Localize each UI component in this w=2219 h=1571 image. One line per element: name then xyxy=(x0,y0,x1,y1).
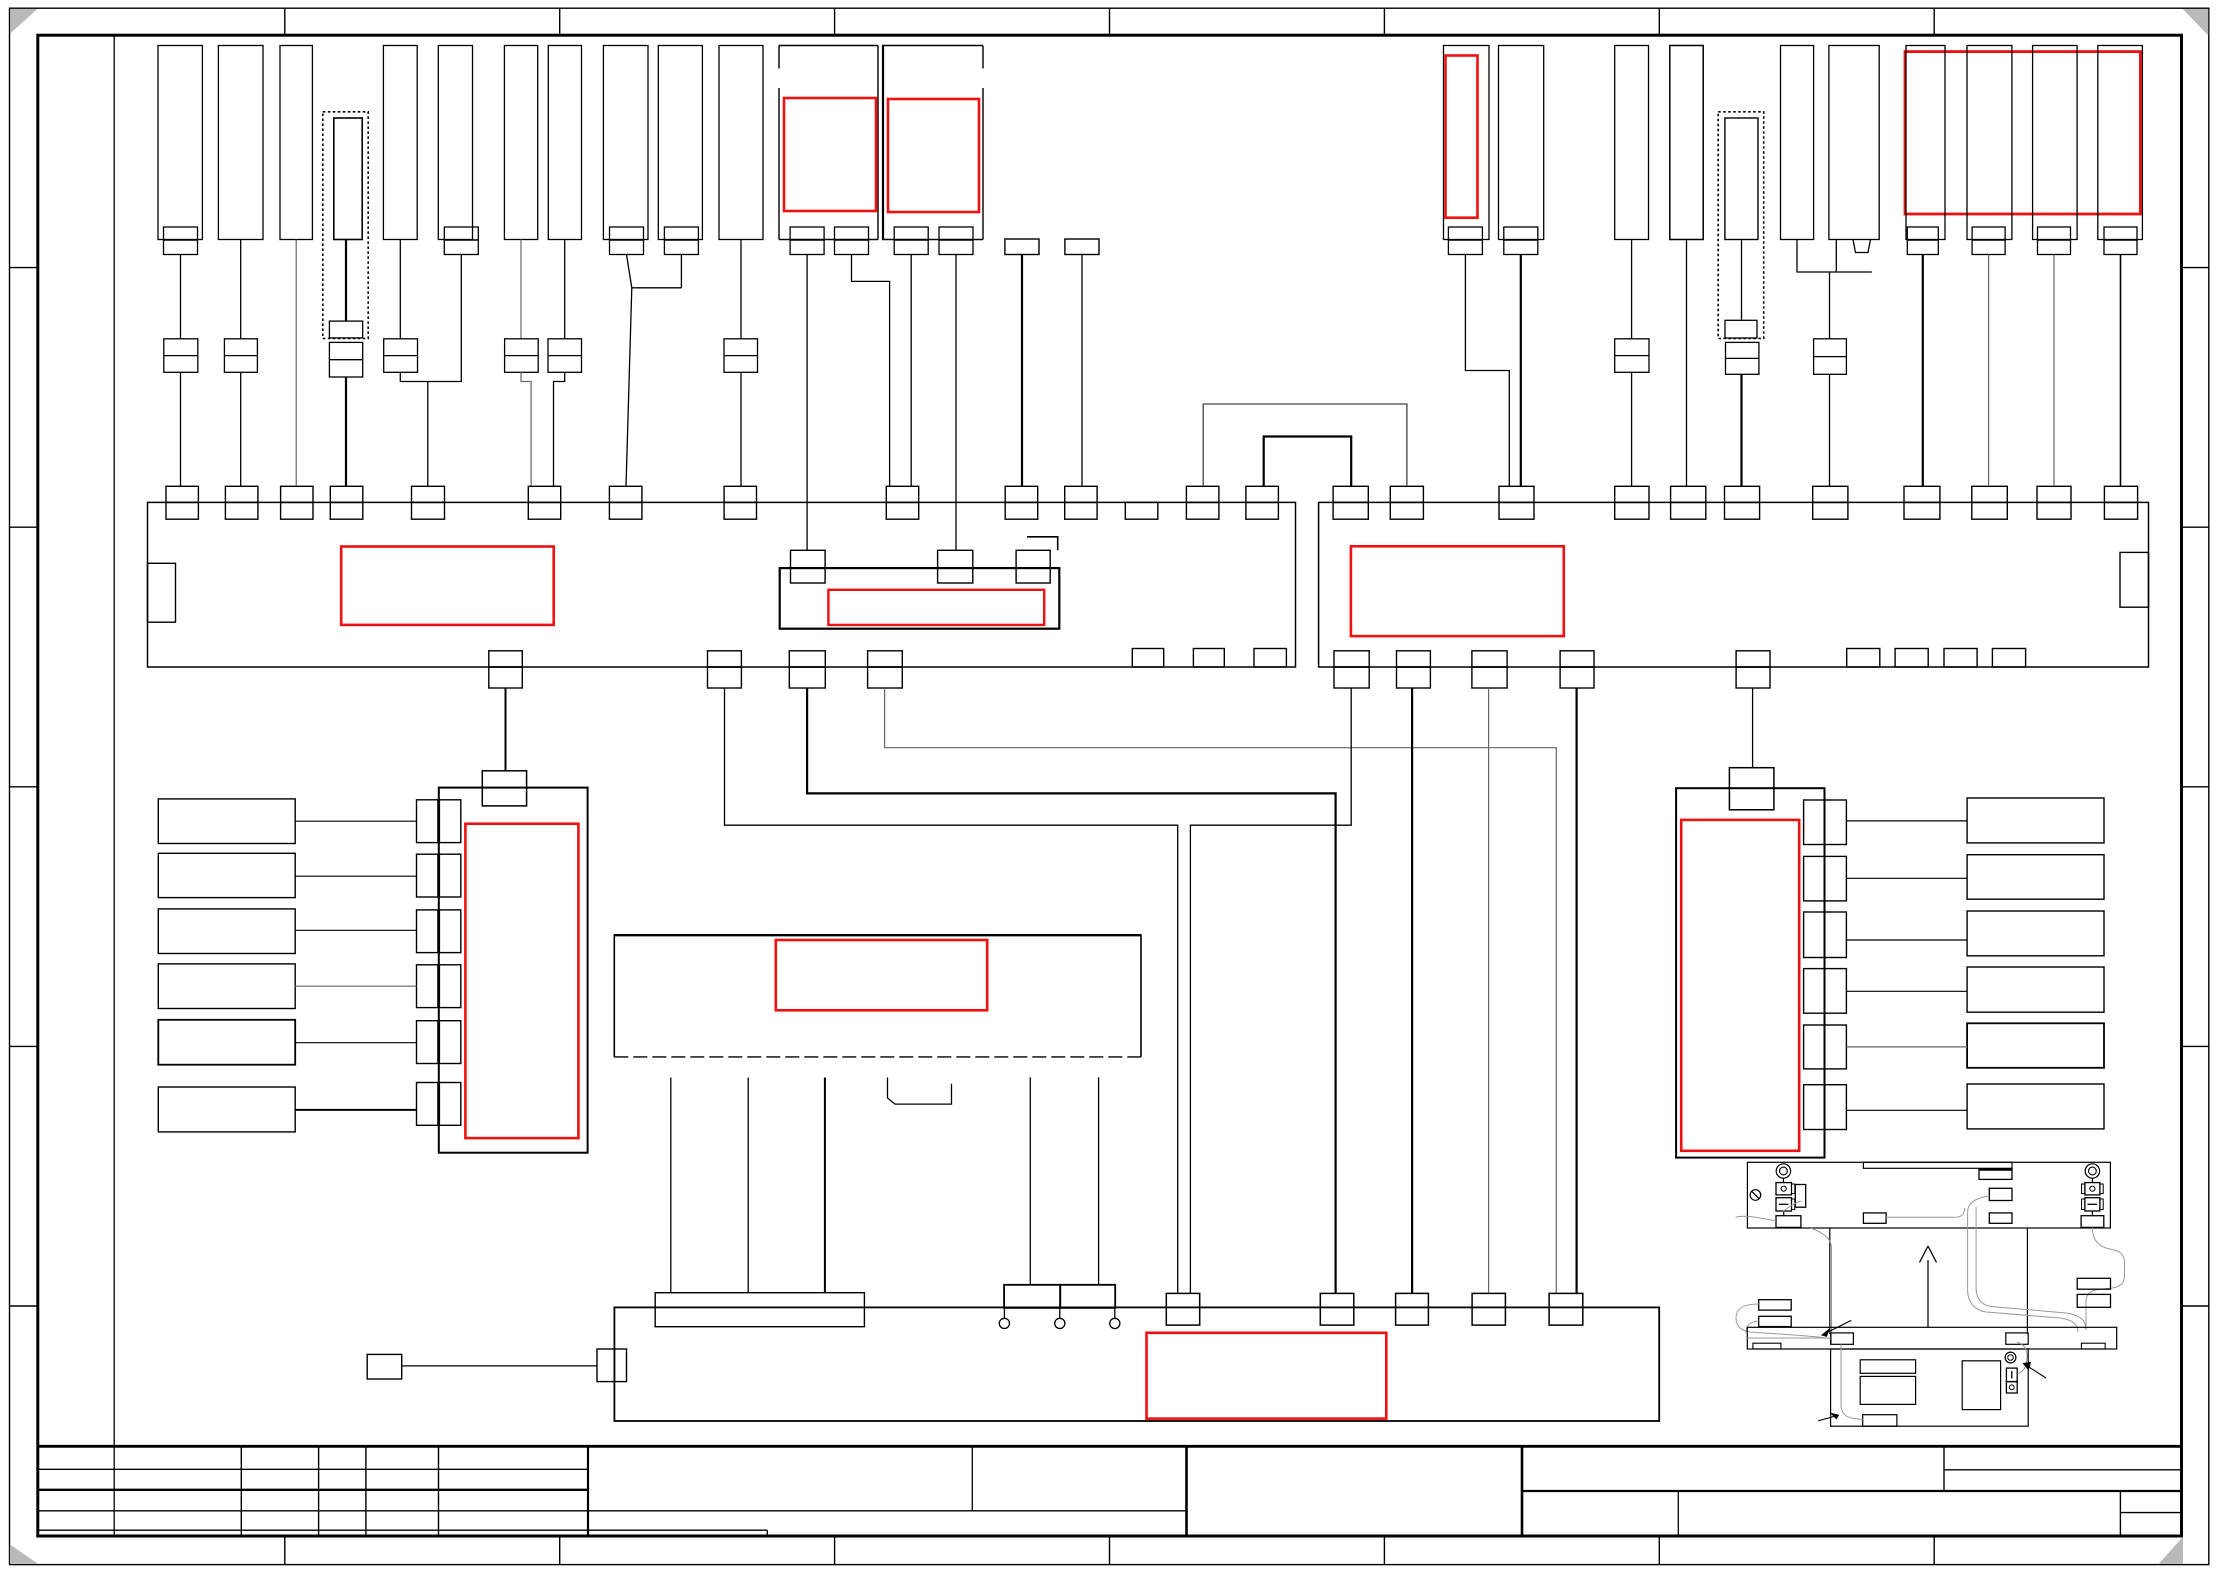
terminal X2:7 xyxy=(1813,486,1848,502)
wire A5:4 riser xyxy=(1029,1077,1031,1285)
wire A6:4 to R4 xyxy=(1846,990,1967,992)
component K3 xyxy=(280,46,312,240)
PCB board outline xyxy=(1747,1162,2110,1228)
terminal X1:6 xyxy=(528,486,560,502)
terminal X2:13 xyxy=(1397,651,1431,667)
component body left xyxy=(1795,1185,1805,1208)
wire A6:1 to R1 xyxy=(1846,820,1967,822)
screw on lower board xyxy=(2005,1352,2016,1363)
wire K3 to X1:3 xyxy=(295,240,297,487)
device rect R5 xyxy=(1967,1023,2104,1068)
frame zone tick right 4 xyxy=(2182,1045,2209,1047)
jumper wire X1:14 to X2:1 xyxy=(1264,437,1352,487)
terminal X1:16 xyxy=(708,651,742,667)
terminal X2:9 xyxy=(1972,486,2008,502)
device rect R2 xyxy=(1967,855,2104,900)
terminal block left (circle) xyxy=(1776,1183,1792,1195)
wire X1:17 to J2 xyxy=(807,688,1336,1293)
assembly bar foot right xyxy=(2081,1343,2105,1349)
module A5 bottom dashed edge xyxy=(614,1056,1141,1058)
connector J5 on A7 xyxy=(1549,1293,1583,1325)
highlight box on A5 xyxy=(776,940,987,1010)
component K23 xyxy=(1781,46,1814,240)
wire K1 to X1:1 xyxy=(180,255,182,339)
wire K25 xyxy=(1922,255,1924,487)
wire L5 to A4:5 xyxy=(295,1042,416,1044)
wire K8 xyxy=(564,240,566,339)
component K9 xyxy=(603,46,648,240)
pin pair A6:3 xyxy=(1804,912,1825,958)
wire A1:a down to inner module xyxy=(806,255,808,551)
wire A5:2 down xyxy=(747,1078,749,1293)
pin pair A4:3 xyxy=(417,910,438,953)
terminal X2:14 xyxy=(1472,651,1507,667)
title block column f xyxy=(971,1446,973,1511)
small box S1 xyxy=(367,1354,402,1379)
wire K11 lower xyxy=(740,372,742,486)
terminal X2:10 xyxy=(2037,486,2071,502)
corner trim triangle top-left xyxy=(10,9,37,34)
dotted enclosure of K22 xyxy=(1718,112,1764,339)
spare terminal X2 s4 xyxy=(1992,649,2025,668)
wire K5 jog xyxy=(400,372,428,486)
device rect L1 xyxy=(158,799,295,844)
connector of K26 xyxy=(1972,227,2005,240)
ground symbol on PCB left xyxy=(1750,1190,1761,1201)
frame zone tick right 1 xyxy=(2182,267,2209,269)
inner margin line left xyxy=(113,35,115,1536)
device rect R4 xyxy=(1967,967,2104,1012)
wire K27 xyxy=(2053,255,2055,487)
title block short divider xyxy=(766,1530,768,1536)
gray loop at left assembly xyxy=(1736,1304,1759,1333)
frame zone tick bottom 3 xyxy=(834,1536,836,1565)
spare terminal X2 s2 xyxy=(1895,649,1928,668)
terminal X1:1 xyxy=(166,486,198,502)
lower board box 2 xyxy=(1860,1376,1915,1404)
wire K15 xyxy=(1081,255,1083,487)
terminal X1:2 xyxy=(225,486,258,502)
terminal X2:16 xyxy=(1736,651,1770,667)
wire A6:5 to R5 xyxy=(1846,1046,1967,1048)
device rect R3 xyxy=(1967,911,2104,956)
component K22 xyxy=(1725,118,1758,240)
inline connector pair of K8 xyxy=(548,339,582,373)
frame zone tick left 1 xyxy=(10,267,38,269)
frame zone tick bottom 6 xyxy=(1658,1536,1660,1565)
terminal X1:4 xyxy=(330,486,363,502)
gray harness from right pad xyxy=(2086,1227,2125,1330)
highlight box on A6 xyxy=(1681,820,1799,1151)
terminal X2:8 xyxy=(1904,486,1940,502)
component K18 xyxy=(1444,46,1490,240)
frame zone tick top 6 xyxy=(1658,8,1660,35)
highlight box on K18 xyxy=(1446,56,1478,218)
highlight box on A3 xyxy=(828,590,1044,625)
spare terminal X1 s2 xyxy=(1193,649,1224,668)
inner module A3 in X1 xyxy=(780,568,1060,629)
highlight box top right xyxy=(1905,52,2140,214)
pin pair A4:1 xyxy=(417,800,438,843)
wire K22 lower xyxy=(1740,374,1742,486)
component K20 xyxy=(1615,46,1649,240)
wire A1:b jog xyxy=(852,255,890,487)
PCB top bar xyxy=(1863,1162,2012,1168)
wire K9/K10 to bus xyxy=(626,288,632,487)
frame zone tick top 5 xyxy=(1383,8,1385,35)
wire X1:15 to module A4 xyxy=(505,688,507,771)
inline connector pair of K11 xyxy=(724,339,758,373)
wire L3 to A4:3 xyxy=(295,929,416,931)
title block row line 1 xyxy=(38,1468,588,1470)
component K28 xyxy=(2098,46,2143,240)
terminal strip X2 body xyxy=(1319,502,2149,667)
frame zone tick left 3 xyxy=(10,786,38,788)
terminal X1:5 xyxy=(412,486,445,502)
connector of K27 xyxy=(2038,227,2071,240)
wire A2:b down to inner module xyxy=(955,255,957,551)
connector K14 xyxy=(1005,239,1039,255)
title block column a xyxy=(240,1446,242,1536)
terminal X2:1 xyxy=(1333,486,1368,502)
wire X1:18 to J5 xyxy=(885,688,1557,1293)
component K27 xyxy=(2033,46,2078,240)
component K24 xyxy=(1829,46,1879,240)
title block outline xyxy=(38,1445,2182,1448)
highlight box on X1 xyxy=(341,547,554,625)
tab on X2 right edge xyxy=(2120,552,2149,607)
inline connector pair of K4 xyxy=(329,342,362,377)
connector of K25 xyxy=(1907,227,1938,240)
right-center box 1 xyxy=(1979,1169,2012,1180)
terminal block right (dash) xyxy=(2085,1198,2100,1211)
pin pair A4:6 xyxy=(417,1083,438,1126)
junction box J0a xyxy=(1004,1285,1060,1308)
wire K20 xyxy=(1631,240,1633,339)
screw stem right xyxy=(2091,1178,2093,1182)
module A2 outline xyxy=(882,45,983,47)
wire K28 xyxy=(2120,255,2122,487)
device rect L2 xyxy=(158,853,295,897)
terminal X1:10 xyxy=(1005,486,1037,502)
terminal X1:14 xyxy=(1246,486,1279,502)
terminal X2:6 xyxy=(1725,486,1760,502)
assembly bar xyxy=(1747,1327,2116,1349)
hook wire at A3:3 xyxy=(1027,537,1058,551)
frame zone tick bottom 1 xyxy=(284,1536,286,1565)
device rect R1 xyxy=(1967,798,2104,843)
terminal X1:15 xyxy=(489,651,523,667)
connector on bar right xyxy=(2006,1333,2028,1344)
wire X2:15 to J5 xyxy=(1575,688,1577,1293)
lower board outline xyxy=(1831,1349,2029,1426)
switch I xyxy=(2006,1368,2017,1382)
frame zone tick right 5 xyxy=(2182,1305,2209,1307)
lower board box 1 xyxy=(1860,1360,1915,1374)
pin pair A4:4 xyxy=(417,965,438,1008)
wire K2 to X1:2 xyxy=(240,240,242,339)
connector A3:3 xyxy=(1016,550,1050,583)
gray harness left vertical xyxy=(1811,1228,1832,1344)
wire X2:12 to J1 xyxy=(1190,688,1351,1293)
stacked boxes right of PCB xyxy=(2077,1278,2110,1289)
module A7 body xyxy=(614,1307,1659,1421)
tab on X1 left edge xyxy=(148,563,176,622)
wire K4 lower xyxy=(345,377,347,486)
center component on PCB xyxy=(1863,1213,1886,1223)
title block column c xyxy=(365,1446,367,1536)
wire X2:16 to module A6 xyxy=(1752,688,1754,768)
spare terminal X1 s3 xyxy=(1254,649,1286,668)
title block right row line 2 (thick) xyxy=(1522,1490,2182,1492)
wire K19 xyxy=(1520,255,1522,487)
component K7 xyxy=(504,46,537,240)
pin pair A6:5 xyxy=(1804,1025,1825,1069)
right-center box 2 xyxy=(1989,1188,2012,1200)
wire A6:2 to R2 xyxy=(1846,877,1967,879)
connector J1 on A7 xyxy=(1166,1293,1199,1325)
component K8 xyxy=(548,46,581,240)
wire K21 xyxy=(1686,240,1688,487)
wire K26 xyxy=(1988,255,1990,487)
wire A6:6 to R6 xyxy=(1846,1109,1967,1111)
component K10 xyxy=(658,46,702,240)
frame zone tick left 2 xyxy=(10,526,38,528)
wire K18 jog xyxy=(1465,255,1509,487)
wire K7 jog xyxy=(521,372,531,486)
device rect R6 xyxy=(1967,1084,2104,1129)
orientation arrow up xyxy=(1927,1260,1929,1328)
assembly bar foot left xyxy=(1753,1343,1781,1349)
wire S1 to A7 xyxy=(402,1365,597,1367)
pin pair A6:6 xyxy=(1804,1085,1825,1130)
component K11 xyxy=(719,46,763,240)
connector J3 on A7 xyxy=(1396,1293,1429,1325)
frame zone tick top 2 xyxy=(559,8,561,35)
pin pair A6:2 xyxy=(1804,856,1825,901)
wire K11 xyxy=(740,240,742,339)
wire K4 to its connector xyxy=(345,240,347,322)
title block right row line 3 xyxy=(2120,1512,2181,1514)
connector J4 on A7 xyxy=(1472,1293,1505,1325)
terminal X1:17 xyxy=(789,651,825,667)
screw stem left xyxy=(1782,1178,1784,1182)
gray lead from left pad xyxy=(1736,1216,1776,1221)
screw head right xyxy=(2085,1164,2099,1178)
connector box of K22 xyxy=(1725,320,1757,338)
connector on bar left xyxy=(1831,1333,1854,1344)
pin pair A6:1 xyxy=(1804,800,1825,845)
jumper wire X1:13 to X2:2 xyxy=(1203,404,1407,486)
connector A3:2 xyxy=(938,550,973,583)
title block column b xyxy=(318,1446,320,1536)
gray wire inside lower board xyxy=(1841,1344,1863,1419)
inline connector pair of K1 xyxy=(164,339,198,373)
component K5 xyxy=(383,46,417,240)
pin pair A4:2 xyxy=(417,854,438,897)
frame zone tick bottom 2 xyxy=(559,1536,561,1565)
wire X2:13 to J3 xyxy=(1411,688,1413,1293)
gray trace to right-center box 2 xyxy=(1968,1196,1990,1212)
connector of K19 xyxy=(1504,227,1538,240)
wire X2:14 to J4 xyxy=(1488,688,1490,1293)
small flag connector at K24 xyxy=(1853,240,1871,253)
frame zone tick top 4 xyxy=(1109,8,1111,35)
spare terminal X1 s1 xyxy=(1132,649,1163,668)
title block column h (thick) xyxy=(1521,1446,1524,1536)
connector A1:b xyxy=(835,227,869,240)
inline connector pair of K24 xyxy=(1814,339,1847,375)
terminal X2:3 xyxy=(1499,486,1534,502)
device rect L6 xyxy=(158,1087,295,1132)
pin pair A4:5 xyxy=(417,1021,438,1064)
inline connector pair of K2 xyxy=(224,339,257,373)
terminal block right (circle) xyxy=(2085,1183,2100,1195)
frame zone tick bottom 7 xyxy=(1933,1536,1935,1565)
pigtail wire below A5 xyxy=(888,1078,952,1105)
connector of K9 xyxy=(610,227,644,240)
gray wire at switch xyxy=(2017,1342,2027,1374)
component K25 xyxy=(1906,46,1945,240)
terminal X2:5 xyxy=(1671,486,1706,502)
spare terminal X2 s3 xyxy=(1944,649,1977,668)
wire K1 lower xyxy=(180,372,182,486)
spare terminal X2 s1 xyxy=(1847,649,1880,668)
wire A2:a to bus xyxy=(910,255,912,487)
connector box of K4 xyxy=(329,321,362,338)
frame zone tick bottom 5 xyxy=(1383,1536,1385,1565)
PCB top bar thick segment xyxy=(1979,1168,2012,1170)
title block column e (thick) xyxy=(587,1446,589,1536)
component K1 xyxy=(158,46,202,240)
stacked boxes left on assembly xyxy=(1759,1300,1792,1310)
highlight box on A1 xyxy=(784,98,876,211)
highlight box on A4 xyxy=(465,824,578,1138)
wire A5:5 riser xyxy=(1098,1077,1100,1285)
stem to pad right xyxy=(2091,1211,2093,1216)
module A1 outline xyxy=(779,45,878,47)
wire A6:3 to R3 xyxy=(1846,939,1967,941)
title block right row line 1 xyxy=(1944,1469,2182,1471)
terminal X1:3 xyxy=(281,486,313,502)
component K19 xyxy=(1499,46,1544,240)
wire A5:3 down xyxy=(824,1078,826,1293)
connector of K1 xyxy=(164,227,198,240)
right-center box 3 xyxy=(1989,1213,2012,1223)
wire K5 xyxy=(399,240,401,339)
connector of K28 xyxy=(2104,227,2137,240)
wire K8 jog xyxy=(554,372,565,486)
title block right vertical 2 xyxy=(2119,1491,2121,1536)
test point circle TP1 xyxy=(1003,1308,1005,1318)
inline connector pair of K22 xyxy=(1726,342,1759,374)
pin pair on A7 left xyxy=(597,1349,614,1382)
dotted enclosure of K4 xyxy=(323,112,368,339)
device rect L3 xyxy=(158,909,295,954)
title block column g (thick) xyxy=(1185,1446,1188,1536)
wire K7 xyxy=(520,240,522,339)
annotation arrow into bar xyxy=(1822,1320,1851,1335)
wire X1:16 to J1 (via right) xyxy=(725,688,1178,1293)
terminal X2:15 xyxy=(1560,651,1594,667)
frame zone tick top 1 xyxy=(284,8,286,35)
module A6 body xyxy=(1676,788,1824,1157)
component K21 xyxy=(1670,46,1703,240)
connector J2 on A7 xyxy=(1320,1293,1354,1325)
screw head left xyxy=(1776,1164,1790,1178)
terminal X1:12 (lower half) xyxy=(1125,502,1158,519)
wire A5:1 down xyxy=(670,1078,672,1293)
connector A2:a xyxy=(894,227,928,240)
pin pair A6:4 xyxy=(1804,969,1825,1014)
test point circle TP2 xyxy=(1059,1308,1061,1318)
annotation arrow bottom left xyxy=(1818,1415,1838,1421)
title block row line 3 xyxy=(38,1510,1187,1512)
inline connector pair of K7 xyxy=(505,339,539,373)
test point circle TP3 xyxy=(1114,1308,1116,1318)
connector of K18 xyxy=(1448,227,1482,240)
title block row line 4 xyxy=(38,1529,768,1531)
corner trim triangle bottom-left xyxy=(10,1544,38,1563)
title block column d xyxy=(438,1446,440,1536)
terminal X1:18 xyxy=(868,651,903,667)
connector of K10 xyxy=(664,227,698,240)
lower board bottom connector xyxy=(1863,1415,1897,1427)
wire K14 xyxy=(1021,255,1023,487)
title block row line 2 (thick) xyxy=(38,1489,588,1491)
gray wires along bar xyxy=(1747,1337,1830,1339)
frame zone tick top 3 xyxy=(834,8,836,35)
terminal block left (dash) xyxy=(1776,1198,1792,1211)
component K26 xyxy=(1967,46,2012,240)
title block lower divider xyxy=(1677,1491,1679,1536)
wire L6 to A4:6 xyxy=(295,1109,416,1111)
terminal strip X1 body xyxy=(148,502,1296,667)
wire K10 drop xyxy=(680,255,682,288)
switch O xyxy=(2006,1382,2017,1393)
wire K24 lower a xyxy=(1829,272,1831,339)
frame zone tick left 5 xyxy=(10,1305,38,1307)
junction box J0b xyxy=(1060,1285,1115,1308)
wire K23/K24 join xyxy=(1797,240,1872,273)
component K4 xyxy=(334,118,362,240)
module A5 body xyxy=(614,935,1141,1057)
wire K24 lower b xyxy=(1829,374,1831,486)
connector A1:a xyxy=(790,227,824,240)
connector A2:b xyxy=(939,227,973,240)
component K2 xyxy=(218,46,263,240)
solder pad right xyxy=(2081,1216,2104,1228)
terminal X2:12 xyxy=(1334,651,1369,667)
wire K22 upper xyxy=(1741,240,1743,321)
wire K2 lower xyxy=(240,372,242,486)
terminal X1:8 xyxy=(724,486,756,502)
title block right vertical 1 xyxy=(1943,1446,1945,1491)
terminal X2:2 xyxy=(1390,486,1423,502)
terminal X1:7 xyxy=(609,486,642,502)
gray trace from center component xyxy=(1886,1208,1965,1217)
connector A3:1 xyxy=(791,550,826,583)
corner trim triangle top-right xyxy=(2183,9,2209,35)
frame zone tick right 2 xyxy=(2182,526,2209,528)
wire K20 lower xyxy=(1631,372,1633,486)
terminal X1:9 xyxy=(886,486,918,502)
inline connector pair of K20 xyxy=(1615,339,1649,373)
highlight box on A2 xyxy=(888,99,979,212)
device rect L4 xyxy=(158,964,295,1009)
lower board square xyxy=(1962,1361,2000,1410)
terminal X1:11 xyxy=(1065,486,1097,502)
